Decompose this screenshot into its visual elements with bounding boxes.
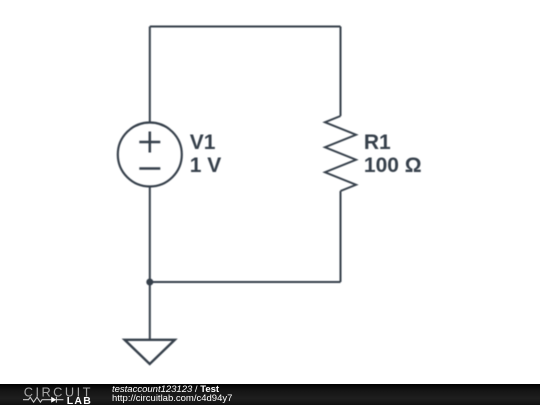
svg-text:1 V: 1 V — [190, 154, 222, 177]
svg-text:R1: R1 — [364, 131, 391, 154]
wire right top — [340, 27, 342, 117]
svg-text:V1: V1 — [190, 131, 216, 154]
svg-text:LAB: LAB — [67, 395, 92, 405]
resistor R1 — [325, 116, 356, 191]
svg-text:100 Ω: 100 Ω — [364, 154, 422, 177]
wire bottom — [150, 281, 341, 283]
wire top — [150, 26, 341, 28]
ground — [125, 340, 175, 364]
wire left top — [149, 27, 151, 123]
V1 minus sign — [139, 167, 160, 170]
wire right bottom — [340, 191, 342, 282]
wire left bottom — [149, 187, 151, 283]
node junction — [146, 279, 153, 286]
V1 plus sign — [139, 132, 160, 153]
wire ground lead — [149, 282, 151, 339]
footer bar — [0, 384, 540, 405]
voltage source V1 — [118, 123, 182, 187]
CircuitLab logo — [0, 384, 110, 405]
